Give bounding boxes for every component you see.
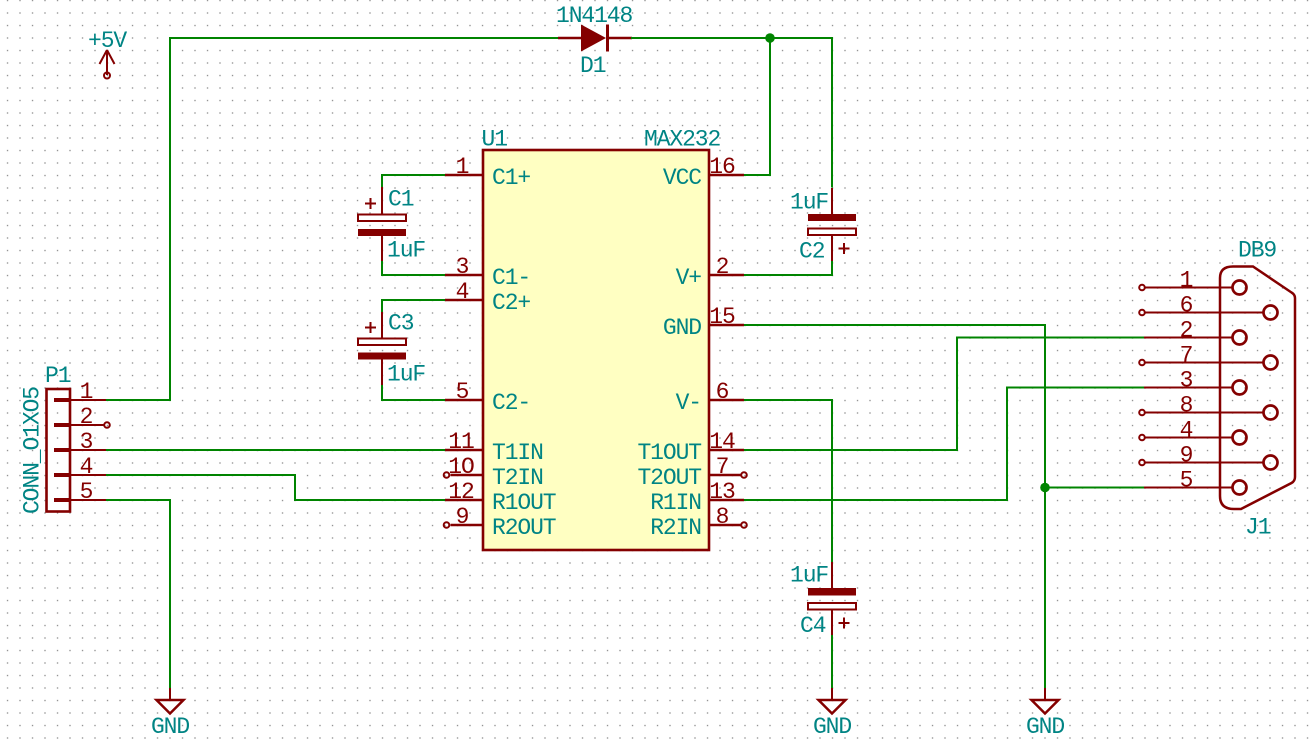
svg-text:9: 9 — [1180, 443, 1193, 469]
svg-text:R1OUT: R1OUT — [492, 490, 556, 516]
svg-text:3: 3 — [456, 254, 469, 280]
svg-text:1uF: 1uF — [790, 563, 828, 589]
wire C4 to GND — [831, 635, 833, 689]
wire C2 to pin2 — [744, 261, 832, 275]
svg-text:1: 1 — [456, 154, 469, 180]
svg-text:12: 12 — [448, 479, 474, 505]
ground symbol left — [151, 688, 189, 740]
pin 14 T1OUT — [637, 429, 744, 466]
P1 pin 5 — [54, 479, 106, 505]
wire pin1 to C1 — [382, 175, 445, 188]
svg-text:VCC: VCC — [663, 165, 701, 191]
P1 pin 2 unconnected — [54, 404, 110, 430]
svg-text:MAX232: MAX232 — [644, 127, 721, 153]
svg-text:8: 8 — [716, 504, 729, 530]
svg-text:2: 2 — [80, 404, 93, 430]
ground symbol under C4 — [813, 688, 851, 740]
P1 pin 1 — [54, 379, 106, 405]
svg-text:T2OUT: T2OUT — [637, 465, 701, 491]
svg-text:11: 11 — [448, 429, 474, 455]
svg-text:16: 16 — [709, 154, 735, 180]
svg-text:GND: GND — [813, 714, 851, 740]
svg-text:4: 4 — [80, 454, 93, 480]
capacitor C3 — [358, 312, 406, 386]
svg-text:D1: D1 — [580, 53, 606, 79]
svg-text:R2IN: R2IN — [650, 515, 701, 541]
junction at 1045,487.5 — [1040, 483, 1050, 493]
svg-text:J1: J1 — [1245, 515, 1271, 541]
svg-text:C4: C4 — [800, 613, 826, 639]
svg-text:8: 8 — [1180, 393, 1193, 419]
svg-text:T1IN: T1IN — [492, 440, 543, 466]
svg-text:6: 6 — [1180, 293, 1193, 319]
svg-text:DB9: DB9 — [1238, 238, 1276, 264]
power flag +5V — [88, 28, 127, 79]
DB9 pin 4 unconnected — [1139, 418, 1246, 445]
svg-text:9: 9 — [456, 504, 469, 530]
DB9 pin 2 — [1144, 318, 1247, 345]
svg-text:1O: 1O — [448, 454, 474, 480]
pin 11 T1IN — [445, 429, 543, 466]
wire pin4 to C3 — [382, 300, 445, 313]
svg-text:C1-: C1- — [492, 265, 530, 291]
svg-text:6: 6 — [716, 379, 729, 405]
DB9 pin 6 unconnected — [1139, 293, 1277, 320]
DB9 pin 3 — [1144, 368, 1247, 395]
svg-text:4: 4 — [1180, 418, 1193, 444]
wire pin13 R1IN to DB9 pin3 — [744, 388, 1145, 501]
connector J1 DB9 outline — [1220, 267, 1295, 510]
svg-text:C2: C2 — [799, 239, 825, 265]
P1 pin 4 — [54, 454, 106, 480]
wire P1 pin5 to GND — [106, 500, 170, 689]
DB9 pin 9 unconnected — [1139, 443, 1277, 470]
svg-text:7: 7 — [1180, 343, 1193, 369]
wire pin6 V- to C4 — [744, 400, 832, 563]
svg-text:15: 15 — [709, 304, 735, 330]
wire C3 to pin5 — [382, 385, 445, 400]
svg-text:1: 1 — [1180, 268, 1193, 294]
svg-text:C3: C3 — [388, 311, 414, 337]
svg-text:R2OUT: R2OUT — [492, 515, 556, 541]
svg-text:GND: GND — [151, 714, 189, 740]
svg-text:1uF: 1uF — [387, 362, 425, 388]
pin 13 R1IN — [650, 479, 744, 516]
svg-text:3: 3 — [80, 429, 93, 455]
svg-text:C1+: C1+ — [492, 165, 530, 191]
svg-text:14: 14 — [709, 429, 735, 455]
svg-text:C2+: C2+ — [492, 290, 530, 316]
svg-text:3: 3 — [1180, 368, 1193, 394]
wire pin15 GND net — [744, 325, 1045, 689]
junction at 770,38 — [765, 33, 775, 43]
svg-text:4: 4 — [456, 279, 469, 305]
pin 2 V+ — [676, 254, 744, 291]
svg-text:1N4148: 1N4148 — [556, 3, 633, 29]
svg-text:13: 13 — [709, 479, 735, 505]
DB9 pin 5 — [1144, 468, 1247, 495]
svg-text:CONN_O1XO5: CONN_O1XO5 — [20, 387, 46, 514]
wire P1 pin1 to diode anode — [106, 38, 559, 400]
pin 8 R2IN unconnected — [650, 504, 747, 541]
pin 5 C2- — [445, 379, 530, 416]
wire P1 pin3 to T1IN — [106, 449, 445, 451]
svg-text:5: 5 — [80, 479, 93, 505]
connector P1 body — [47, 389, 71, 512]
svg-text:GND: GND — [1026, 714, 1064, 740]
svg-text:5: 5 — [456, 379, 469, 405]
capacitor C4 — [808, 562, 856, 636]
wire diode cathode to C2 top — [631, 38, 832, 188]
pin 12 R1OUT — [445, 479, 556, 516]
pin 9 R2OUT unconnected — [444, 504, 556, 541]
wire C1 to pin3 — [382, 261, 445, 275]
pin 1 C1+ — [445, 154, 530, 191]
svg-text:C1: C1 — [388, 187, 414, 213]
svg-text:5: 5 — [1180, 468, 1193, 494]
svg-text:U1: U1 — [482, 127, 508, 153]
wire junction to DB9 pin5 — [1045, 487, 1145, 489]
svg-text:C2-: C2- — [492, 390, 530, 416]
diode D1 — [558, 25, 632, 52]
pin 10 T2IN unconnected — [444, 454, 543, 491]
svg-text:1uF: 1uF — [387, 238, 425, 264]
pin 3 C1- — [445, 254, 530, 291]
pin 7 T2OUT unconnected — [637, 454, 746, 491]
svg-text:T2IN: T2IN — [492, 465, 543, 491]
svg-text:V-: V- — [676, 390, 701, 416]
capacitor C2 — [808, 188, 856, 262]
svg-text:1: 1 — [80, 379, 93, 405]
P1 pin 3 — [54, 429, 106, 455]
svg-text:2: 2 — [1180, 318, 1193, 344]
wire pin14 T1OUT to DB9 pin2 — [744, 338, 1145, 451]
pin 6 V- — [676, 379, 744, 416]
pin 15 GND — [663, 304, 744, 341]
svg-text:2: 2 — [716, 254, 729, 280]
svg-text:T1OUT: T1OUT — [637, 440, 701, 466]
svg-text:R1IN: R1IN — [650, 490, 701, 516]
wire P1 pin4 to R1OUT — [106, 475, 445, 500]
svg-text:GND: GND — [663, 315, 701, 341]
DB9 pin 1 unconnected — [1139, 268, 1246, 295]
pin 16 VCC — [663, 154, 744, 191]
DB9 pin 7 unconnected — [1139, 343, 1277, 370]
DB9 pin 8 unconnected — [1139, 393, 1277, 420]
wire junction to VCC pin16 — [744, 38, 770, 175]
svg-text:P1: P1 — [45, 363, 71, 389]
capacitor C1 — [358, 187, 406, 262]
svg-text:V+: V+ — [676, 265, 702, 291]
ground symbol right — [1026, 688, 1064, 740]
svg-text:7: 7 — [716, 454, 729, 480]
pin 4 C2+ — [445, 279, 530, 316]
svg-text:1uF: 1uF — [790, 190, 828, 216]
IC U1 MAX232 body — [483, 150, 709, 550]
